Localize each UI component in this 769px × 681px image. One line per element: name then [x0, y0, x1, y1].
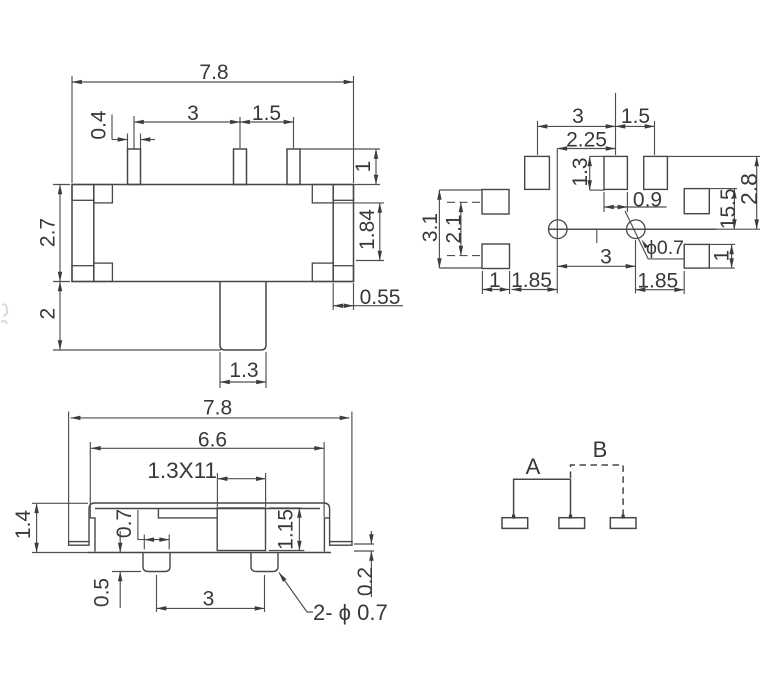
pin 1 — [128, 149, 141, 185]
svg-text:1.4: 1.4 — [12, 510, 35, 540]
corner tab bottom-right inner — [312, 263, 333, 281]
pin 3 — [287, 149, 300, 185]
corner tab top-right inner — [312, 185, 333, 203]
dim 6.6 line — [91, 447, 324, 449]
dim 1.85 right extension line — [683, 271, 685, 294]
dim 0.7 line — [144, 539, 169, 541]
dim 1.84 extension lines — [333, 202, 384, 204]
inner left vertical edge — [93, 185, 95, 282]
svg-text:1.3X11: 1.3X11 — [147, 458, 217, 483]
dim 15.5 line — [733, 189, 735, 230]
svg-text:2.7: 2.7 — [37, 218, 60, 247]
pad left lower — [482, 244, 510, 269]
svg-text:ϕ0.7: ϕ0.7 — [646, 237, 684, 259]
corner tab top-right outer — [333, 185, 353, 201]
dim 1.3X11 extension lines — [216, 473, 218, 507]
dim 3/1.5 extension lines — [133, 116, 135, 149]
right hole extension line — [635, 240, 637, 294]
vertical centerline — [556, 149, 558, 294]
horizontal centerline — [549, 228, 717, 230]
svg-text:7.8: 7.8 — [199, 61, 228, 84]
cover underside — [95, 508, 320, 510]
dim 7.8 front extension lines — [68, 412, 70, 542]
leg right — [251, 553, 278, 572]
dim 3 top line — [538, 125, 616, 127]
dim 3.1 extension lines — [439, 189, 482, 191]
midpoint tick — [596, 229, 598, 243]
dim 0.7 leader — [138, 510, 144, 540]
svg-text:6.6: 6.6 — [198, 429, 227, 452]
dim 3 legs extension lines — [156, 575, 158, 612]
svg-text:3: 3 — [187, 102, 199, 125]
dim 1 right line — [731, 244, 733, 268]
terminal 1 — [502, 518, 528, 529]
svg-text:1: 1 — [489, 269, 501, 292]
dim 2.8 line — [756, 156, 758, 229]
stem block — [217, 508, 265, 551]
dim 1.3 extension lines — [590, 155, 604, 157]
dim 0.5 arrows — [119, 531, 121, 553]
dim 1 left extension lines — [481, 271, 483, 294]
svg-text:B: B — [593, 437, 608, 462]
dim 0.55 extension lines — [332, 283, 334, 310]
dim 2 extension line — [53, 349, 221, 351]
position A link — [514, 479, 571, 517]
body bottom line — [88, 552, 331, 554]
dim 1.15 line — [298, 508, 300, 551]
corner tab bottom-left outer — [72, 266, 94, 282]
hole leader arrowhead — [642, 240, 649, 249]
leg left — [143, 553, 170, 572]
pad top 1 — [525, 156, 550, 189]
svg-text:0.2: 0.2 — [354, 567, 377, 596]
svg-text:3.1: 3.1 — [419, 213, 442, 242]
corner tab bottom-left inner — [94, 263, 113, 281]
svg-text:0.7: 0.7 — [113, 509, 136, 538]
top view body outline — [72, 185, 354, 282]
dim 1 left line — [482, 289, 509, 291]
svg-text:2: 2 — [37, 308, 60, 320]
dim 2.7 extension lines — [53, 184, 70, 186]
svg-text:1.3: 1.3 — [569, 157, 592, 186]
dim 3 holes line — [557, 265, 635, 267]
dim 0.7 extension lines — [143, 535, 145, 550]
terminal 3 — [610, 518, 636, 529]
junction nubs — [514, 515, 624, 519]
dim 1.85 right line — [636, 289, 685, 291]
hole left — [549, 220, 568, 239]
svg-text:2.8: 2.8 — [736, 173, 762, 205]
svg-text:3: 3 — [600, 246, 612, 269]
svg-text:1: 1 — [352, 161, 375, 173]
pad top 2 — [604, 156, 627, 189]
pad top 3 — [644, 156, 668, 189]
dim 1.5 line — [240, 121, 294, 123]
corner tab top-left inner — [94, 185, 113, 203]
dim 0.5 extension line — [112, 571, 141, 573]
dim 1.84 line — [379, 203, 381, 261]
dim 0.4 leader and ticks — [111, 115, 113, 140]
dim 15.5 extension line — [709, 188, 737, 190]
corner tab bottom-right outer — [333, 266, 353, 282]
dim 1 right extension lines — [709, 243, 735, 245]
svg-text:2.25: 2.25 — [566, 129, 607, 152]
svg-text:2- ϕ 0.7: 2- ϕ 0.7 — [313, 600, 388, 625]
dim 0.2 arrows — [370, 531, 372, 544]
dim 1.3 line — [220, 381, 266, 383]
dim 0.9 extension lines — [603, 192, 605, 212]
dim 1.15 extension lines — [269, 507, 302, 509]
pad left upper — [482, 190, 509, 215]
dim 1.5 top line — [616, 125, 655, 127]
svg-text:7.8: 7.8 — [203, 397, 232, 420]
right inner edge — [324, 518, 329, 552]
svg-text:3: 3 — [572, 105, 584, 128]
inner right vertical edge — [332, 185, 334, 282]
dim 1.3X11 line — [218, 478, 266, 480]
svg-text:0.55: 0.55 — [360, 286, 401, 309]
dim 2.25 line — [557, 148, 615, 150]
dim 7.8 front line — [71, 417, 350, 419]
svg-text:1.5: 1.5 — [252, 102, 281, 125]
dim 3/1.5 extension lines — [537, 121, 539, 155]
pad right upper — [684, 189, 709, 214]
dim 1 line — [375, 149, 377, 185]
dim 1.4 line — [36, 503, 38, 552]
dim 0.55 line — [333, 305, 353, 307]
leader 2-phi0.7 — [279, 573, 313, 613]
dim 2 line — [59, 282, 61, 351]
dim 6.6 extension lines — [89, 442, 91, 517]
svg-text:1.5: 1.5 — [621, 105, 650, 128]
right foot — [330, 542, 352, 546]
corner tab top-left outer — [72, 185, 94, 201]
dim 7.8 extension lines — [71, 76, 73, 183]
svg-text:2.1: 2.1 — [442, 214, 465, 243]
svg-text:1.85: 1.85 — [511, 269, 552, 292]
hole right — [627, 220, 646, 239]
dim 1.3 line — [589, 156, 591, 190]
dim 0.2 extension lines — [354, 543, 374, 545]
channel line — [158, 509, 217, 518]
dim 1.85 left line — [512, 289, 558, 291]
svg-text:0.9: 0.9 — [633, 189, 662, 212]
dim 0.9 line — [604, 206, 627, 208]
dim 1.4 extension lines — [32, 502, 88, 504]
dim 2.1 extension lines — [447, 201, 482, 203]
left inner edge — [89, 518, 95, 552]
dim 2.8 extension lines — [667, 155, 760, 157]
dim 7.8 line — [72, 81, 354, 83]
dim 2.7 line — [59, 185, 61, 282]
dim 1 (pin height) extension lines — [300, 148, 380, 150]
dim 3.1 line — [438, 190, 440, 268]
svg-text:3: 3 — [203, 588, 215, 611]
actuator stem — [220, 282, 266, 351]
svg-text:1.84: 1.84 — [356, 209, 379, 250]
dim 3 line — [134, 121, 240, 123]
pin 2 — [234, 149, 247, 185]
watermark fragment — [1, 305, 7, 325]
dim 1.3 extension lines — [219, 352, 221, 388]
svg-text:A: A — [526, 454, 541, 479]
svg-text:1.85: 1.85 — [637, 270, 678, 293]
dim 3 legs line — [157, 607, 265, 609]
left foot — [69, 542, 89, 546]
svg-text:1.15: 1.15 — [274, 509, 297, 550]
pad right lower — [684, 244, 709, 268]
cover top with bent sides — [89, 503, 330, 542]
svg-text:0.5: 0.5 — [91, 578, 114, 607]
svg-text:1.3: 1.3 — [229, 359, 258, 382]
svg-text:1: 1 — [710, 250, 733, 262]
position B link (dashed) — [571, 465, 624, 518]
hole leader diagonal — [625, 211, 684, 259]
terminal 2 — [559, 518, 585, 529]
svg-text:0.4: 0.4 — [88, 110, 111, 140]
dim 2.1 line — [460, 202, 462, 255]
